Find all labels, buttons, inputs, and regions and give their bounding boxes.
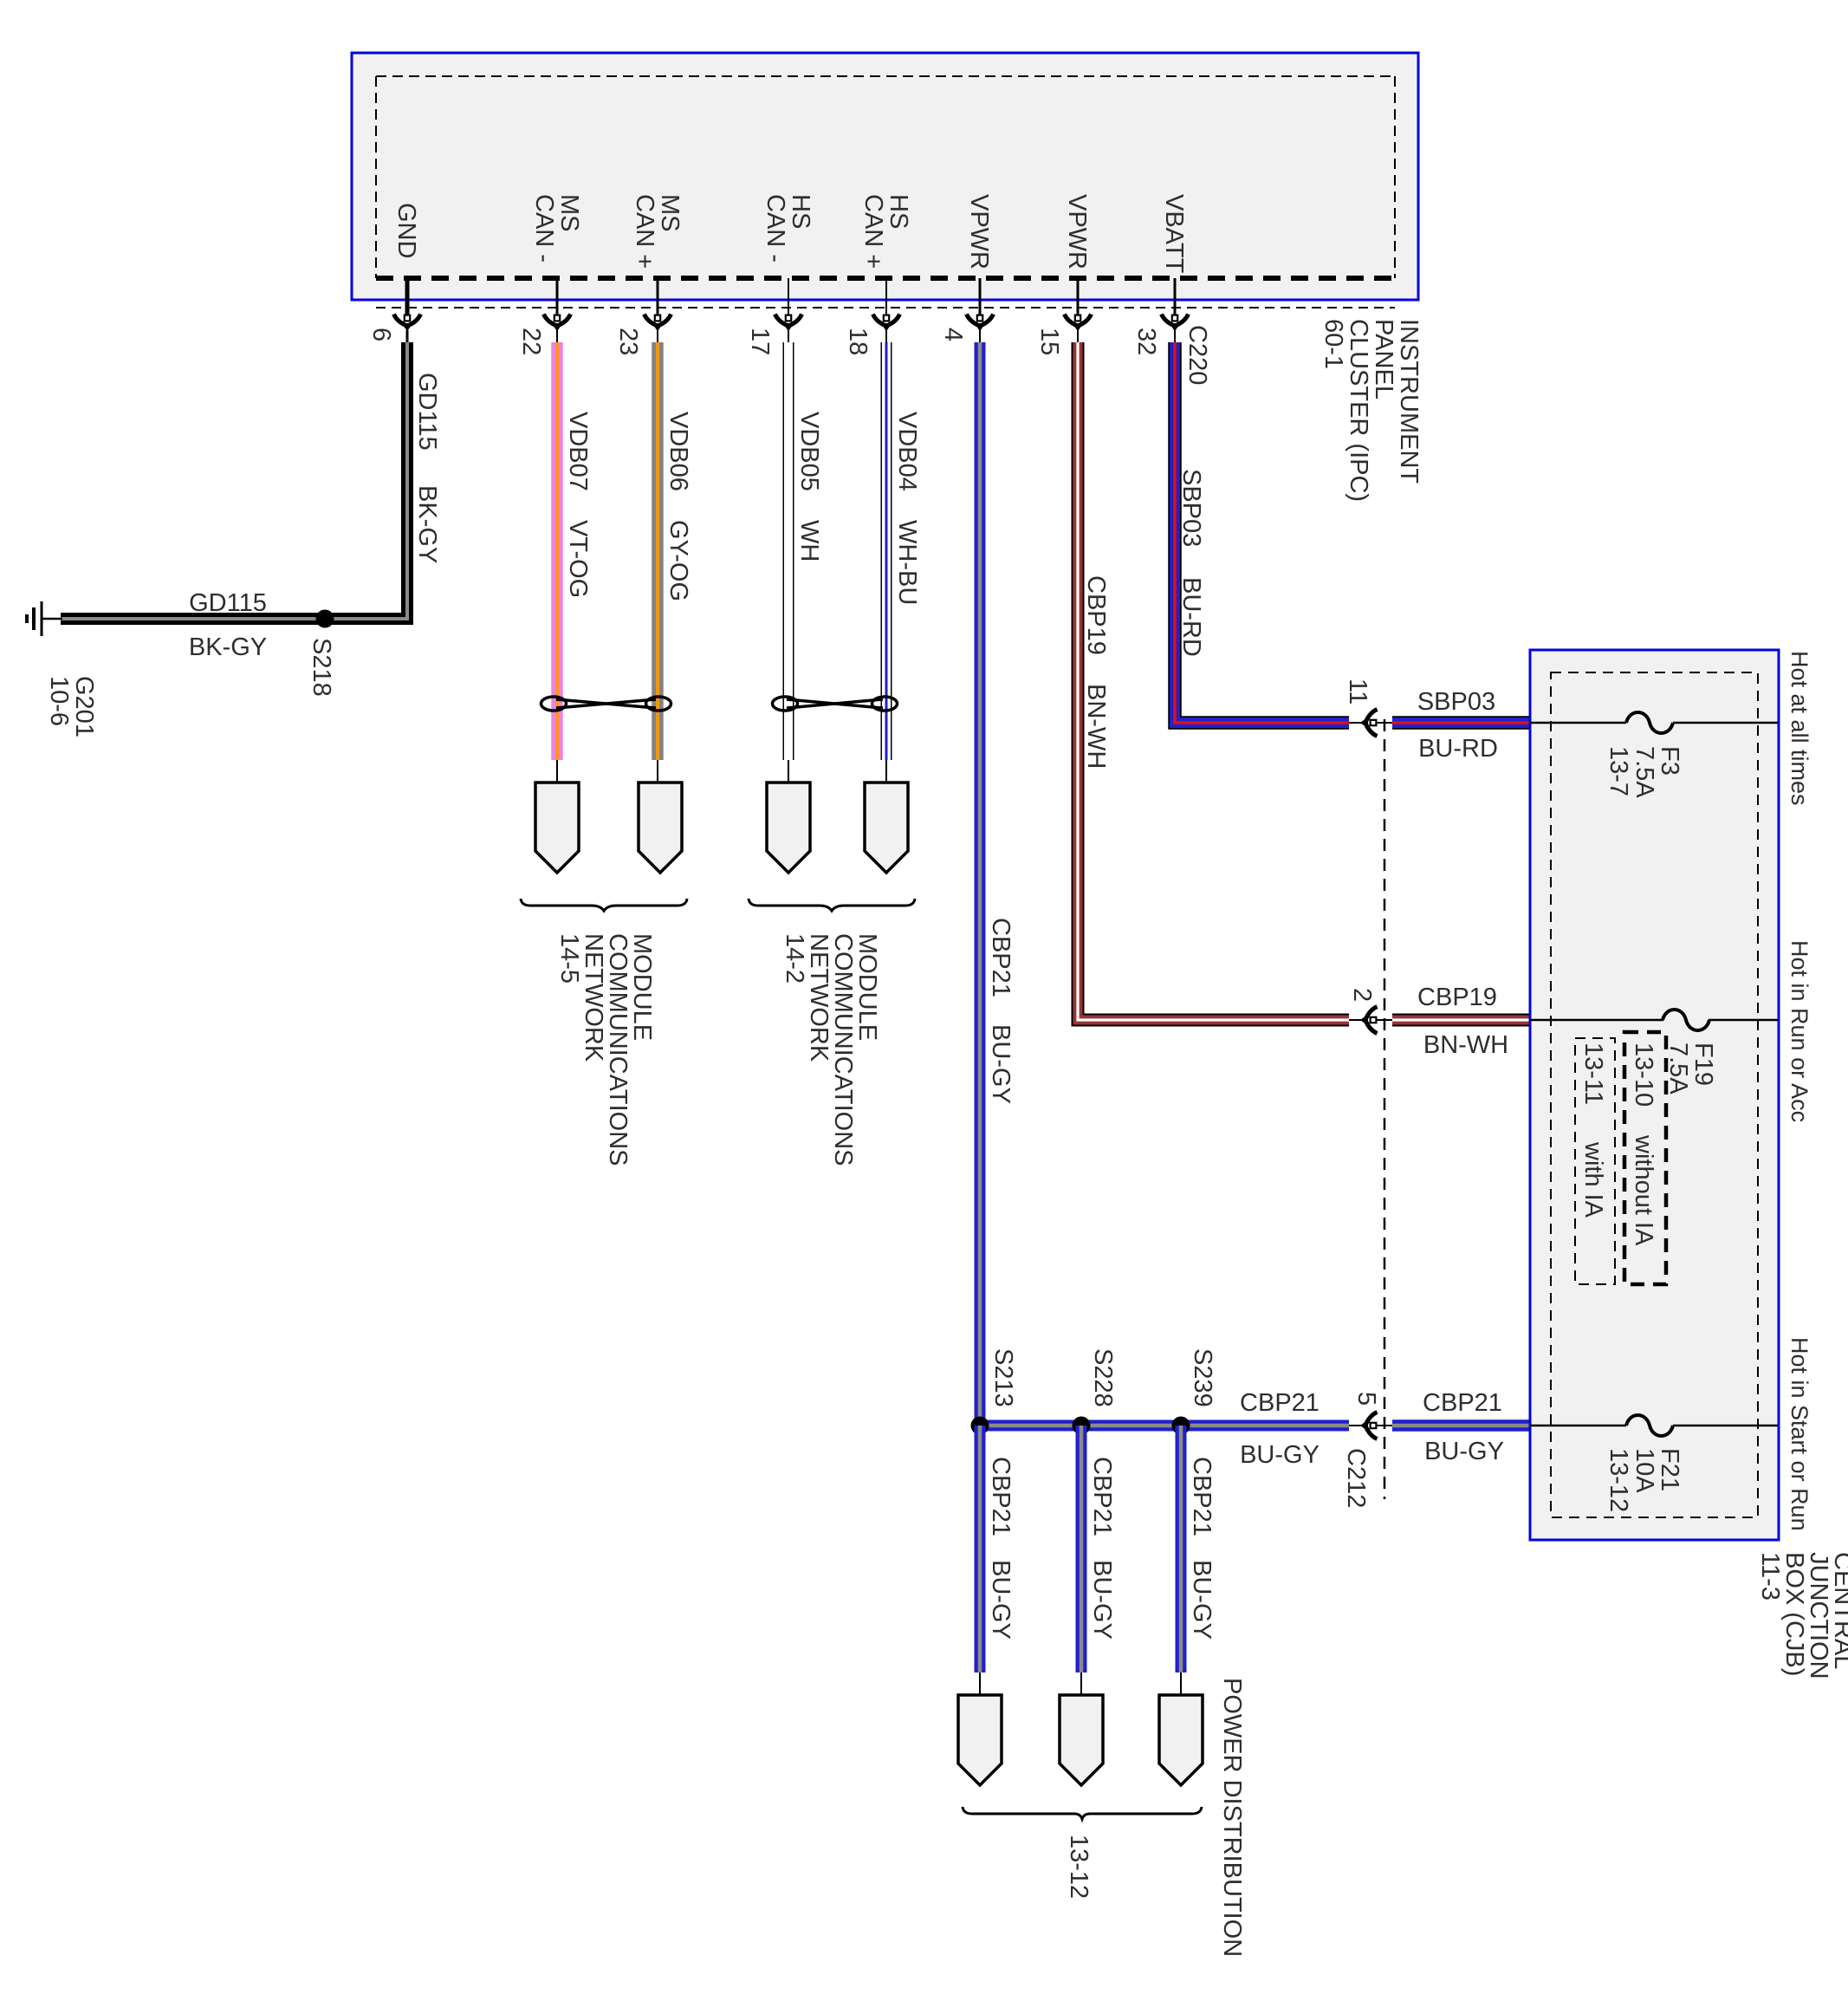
central junction box (CJB) [1530, 650, 1779, 1540]
connector fork pin 4 [967, 315, 994, 330]
label VDB06 GY-OG [665, 412, 692, 601]
svg-text:BU-GY: BU-GY [987, 1024, 1015, 1104]
pin number 4 [939, 328, 967, 341]
svg-text:2: 2 [1348, 988, 1376, 1002]
svg-text:HS: HS [885, 194, 912, 229]
label 13-12 (power distribution) [1065, 1835, 1093, 1899]
svg-text:BN-WH: BN-WH [1423, 1031, 1508, 1059]
connector fork pin 5 [1349, 1425, 1365, 1426]
svg-text:HS: HS [787, 194, 814, 229]
twisted pair symbol MS CAN [541, 697, 671, 711]
svg-text:60-1: 60-1 [1320, 319, 1347, 369]
svg-text:CBP21: CBP21 [1088, 1457, 1116, 1536]
svg-text:VDB04: VDB04 [893, 412, 921, 491]
off-page connector (pin 23 branch) [639, 783, 682, 873]
pin label VPWR (4) [965, 194, 993, 270]
svg-text:G201: G201 [70, 676, 98, 737]
label 13-11 with IA [1579, 1042, 1607, 1218]
dashed option box 13-11 with IA [1575, 1038, 1615, 1284]
label GD115 BK-GY (vertical wire) [413, 373, 441, 563]
wire SBP03 BU-RD (pin 32 VBATT) [1175, 342, 1349, 723]
off-page connector (S239 drop) [1159, 1695, 1203, 1785]
label VDB04 WH-BU [893, 412, 921, 605]
connector fork pin 18 [873, 315, 900, 330]
label S228 [1089, 1348, 1117, 1407]
wire CBP21 drop from S239 [1176, 1426, 1187, 1672]
label CBP21 BU-GY (S239 drop) [1188, 1457, 1216, 1640]
connector fork pin 2 [1349, 1019, 1365, 1021]
connector fork pin 15 [1065, 315, 1092, 330]
svg-text:7.5A: 7.5A [1664, 1042, 1692, 1094]
label CENTRAL JUNCTION BOX (CJB) 11-3 [1756, 1552, 1848, 1679]
svg-text:BU-GY: BU-GY [1240, 1441, 1320, 1469]
instrument panel cluster (IPC) box [352, 53, 1418, 300]
pin label VPWR (15) [1063, 194, 1091, 270]
label Hot in Start or Run [1786, 1337, 1812, 1531]
svg-text:C212: C212 [1342, 1448, 1370, 1508]
svg-text:BK-GY: BK-GY [189, 633, 267, 661]
svg-text:CBP19: CBP19 [1082, 575, 1110, 655]
fuse F19 [1663, 1010, 1709, 1030]
connector fork pin 32 [1162, 315, 1189, 330]
pin stubs [407, 278, 1175, 342]
svg-text:MS: MS [656, 194, 684, 232]
off-page connector (S213 drop) [958, 1695, 1002, 1785]
wire CBP21 drop from S228 [1076, 1426, 1087, 1672]
label F3 7.5A 13-7 [1605, 746, 1683, 798]
svg-text:BU-RD: BU-RD [1177, 577, 1205, 657]
svg-text:13-12: 13-12 [1605, 1448, 1632, 1512]
svg-text:with IA: with IA [1579, 1141, 1607, 1218]
svg-text:GD115: GD115 [189, 589, 267, 617]
pin label GND [392, 203, 420, 258]
leads to off-page connectors [557, 760, 886, 783]
wire CBP21 drop from S213 [975, 1426, 986, 1672]
label Hot in Run or Acc [1786, 940, 1812, 1122]
svg-text:SBP03: SBP03 [1177, 469, 1205, 547]
svg-text:VPWR: VPWR [1063, 194, 1091, 270]
svg-text:GND: GND [392, 203, 420, 258]
svg-text:Hot at all times: Hot at all times [1786, 651, 1812, 806]
svg-text:WH-BU: WH-BU [893, 520, 921, 605]
fuse F3 [1626, 712, 1673, 733]
pin number 15 [1035, 328, 1063, 355]
svg-text:13-11: 13-11 [1579, 1042, 1607, 1105]
twisted pair symbol HS CAN [773, 697, 898, 711]
connector fork pin 6 [394, 315, 421, 330]
svg-text:F3: F3 [1656, 746, 1683, 776]
connector fork pin 11 [1349, 722, 1365, 724]
off-page connector (pin 17 branch) [767, 783, 810, 873]
svg-text:13-7: 13-7 [1605, 746, 1632, 796]
label S218 [308, 638, 335, 697]
svg-text:CLUSTER (IPC): CLUSTER (IPC) [1345, 319, 1372, 502]
pin label HS CAN - [762, 194, 814, 263]
svg-text:C220: C220 [1183, 325, 1211, 385]
svg-text:GD115: GD115 [413, 373, 441, 451]
svg-text:F19: F19 [1689, 1042, 1717, 1086]
svg-text:5: 5 [1352, 1392, 1380, 1406]
wire CBP19 BN-WH (pin 15 VPWR) [1078, 342, 1349, 1020]
svg-text:BU-GY: BU-GY [1188, 1560, 1216, 1640]
splice S228 [1073, 1417, 1091, 1435]
connector fork pin 17 [775, 315, 802, 330]
svg-text:GY-OG: GY-OG [665, 520, 692, 601]
svg-text:WH: WH [795, 520, 823, 562]
svg-text:BN-WH: BN-WH [1082, 684, 1110, 769]
fuse F3 feed line [1530, 722, 1626, 724]
svg-text:BU-RD: BU-RD [1418, 735, 1498, 763]
svg-text:CAN -: CAN - [530, 194, 558, 263]
wire CBP21 into CJB [1392, 1419, 1530, 1432]
connector C212 dashed line [1384, 719, 1386, 1499]
ground label G201 10-6 [45, 676, 98, 737]
brace MS CAN group [521, 899, 687, 911]
svg-text:VDB06: VDB06 [665, 412, 692, 491]
fuse F21 feed line [1530, 1425, 1626, 1427]
pin number 22 [517, 328, 545, 355]
svg-text:14-5: 14-5 [555, 933, 583, 984]
svg-text:14-2: 14-2 [781, 933, 808, 984]
svg-text:BU-GY: BU-GY [1424, 1438, 1504, 1465]
label F21 10A 13-12 [1605, 1448, 1683, 1512]
label CBP21 BU-GY (pin 4 wire) [987, 918, 1015, 1104]
svg-text:CBP21: CBP21 [987, 918, 1015, 997]
svg-text:13-10: 13-10 [1630, 1042, 1657, 1107]
ground G201 symbol [27, 601, 62, 636]
svg-text:CAN +: CAN + [859, 194, 887, 269]
fuse F21 [1626, 1415, 1673, 1436]
svg-text:17: 17 [746, 328, 774, 355]
pin number 6 [367, 328, 395, 341]
connector fork pin 22 [544, 315, 571, 330]
splice S239 [1172, 1417, 1190, 1435]
svg-text:CBP21: CBP21 [1188, 1457, 1216, 1536]
brace power distribution group [963, 1807, 1202, 1819]
label F19 7.5A [1664, 1042, 1717, 1094]
off-page connector (pin 18 branch) [865, 783, 908, 873]
splice S213 [971, 1417, 989, 1435]
label CBP21 BU-GY (S213 drop) [987, 1457, 1015, 1640]
connector C220 label [1183, 325, 1211, 385]
svg-text:BU-GY: BU-GY [987, 1560, 1015, 1640]
svg-text:CAN -: CAN - [762, 194, 789, 263]
svg-text:Hot in Start or Run: Hot in Start or Run [1786, 1337, 1812, 1531]
svg-text:S213: S213 [989, 1348, 1017, 1407]
svg-text:VPWR: VPWR [965, 194, 993, 270]
svg-text:VT-OG: VT-OG [564, 520, 592, 598]
brace HS CAN group [749, 899, 915, 911]
label POWER DISTRIBUTION [1218, 1678, 1246, 1957]
pin number 11 [1344, 679, 1371, 705]
label S239 [1189, 1348, 1216, 1407]
dashed option box 13-10 without IA [1624, 1032, 1666, 1284]
wire VDB05 WH (pin 17) [783, 342, 794, 760]
svg-text:32: 32 [1132, 328, 1160, 355]
svg-text:10A: 10A [1631, 1448, 1658, 1493]
svg-text:VBATT: VBATT [1160, 194, 1188, 274]
wire GD115 BK-GY (pin 6 to ground) [61, 342, 407, 619]
IPC inner dashed connector boundary [376, 76, 1395, 278]
svg-text:6: 6 [367, 328, 395, 341]
pin number 2 [1348, 988, 1376, 1002]
svg-text:VDB07: VDB07 [564, 412, 592, 491]
svg-text:POWER DISTRIBUTION: POWER DISTRIBUTION [1218, 1678, 1246, 1957]
svg-text:CAN +: CAN + [631, 194, 658, 269]
svg-text:S239: S239 [1189, 1348, 1216, 1407]
pin number 5 [1352, 1392, 1380, 1406]
label Hot at all times [1786, 651, 1812, 806]
svg-text:CBP21: CBP21 [1240, 1389, 1320, 1417]
svg-text:BK-GY: BK-GY [413, 485, 441, 563]
svg-text:18: 18 [844, 328, 872, 355]
label VDB05 WH [795, 412, 823, 562]
splice S218 [316, 610, 334, 628]
svg-text:INSTRUMENT: INSTRUMENT [1395, 319, 1423, 484]
off-page connector (pin 22 branch) [535, 783, 579, 873]
svg-text:MS: MS [555, 194, 583, 232]
pin label MS CAN + [631, 194, 684, 269]
svg-text:13-12: 13-12 [1065, 1835, 1093, 1899]
pin label HS CAN + [859, 194, 912, 269]
svg-text:F21: F21 [1656, 1448, 1683, 1491]
wire CBP21 BU-GY (pin 4 VPWR) [980, 342, 1349, 1426]
svg-text:BU-GY: BU-GY [1088, 1560, 1116, 1640]
wire CBP19 into CJB [1392, 1014, 1530, 1027]
label CBP21 BU-GY (S228 drop) [1088, 1457, 1116, 1640]
svg-text:CBP21: CBP21 [987, 1457, 1015, 1536]
pin number 18 [844, 328, 872, 355]
svg-text:CBP21: CBP21 [1423, 1389, 1502, 1417]
label SBP03 BU-RD (pin 32 wire) [1177, 469, 1205, 657]
svg-text:11: 11 [1344, 679, 1371, 705]
label MODULE COMMUNICATIONS NETWORK 14-5 [555, 933, 656, 1166]
wire VDB04 WH-BU (pin 18) [881, 342, 892, 760]
pin number 23 [614, 328, 642, 355]
connector C220 dashed line [376, 307, 1395, 309]
svg-text:Hot in Run or Acc: Hot in Run or Acc [1786, 940, 1812, 1122]
svg-text:SBP03: SBP03 [1417, 688, 1495, 716]
svg-text:PANEL: PANEL [1370, 319, 1397, 399]
wire SBP03 into CJB [1392, 716, 1530, 730]
label CBP19 BN-WH (pin 15 wire) [1082, 575, 1110, 769]
connector fork pin 23 [645, 315, 671, 330]
pin number 17 [746, 328, 774, 355]
svg-text:without IA: without IA [1630, 1134, 1657, 1246]
svg-text:22: 22 [517, 328, 545, 355]
label VDB07 VT-OG [564, 412, 592, 598]
fuse F19 feed line [1530, 1019, 1663, 1022]
pin number 32 [1132, 328, 1160, 355]
CJB inner dashed boundary [1551, 672, 1758, 1517]
pin label MS CAN - [530, 194, 583, 263]
wire VDB06 GY-OG (pin 23) [652, 342, 664, 760]
svg-text:7.5A: 7.5A [1631, 746, 1658, 798]
wire VDB07 VT-OG (pin 22) [551, 342, 563, 760]
label MODULE COMMUNICATIONS NETWORK 14-2 [781, 933, 881, 1166]
label S213 [989, 1348, 1017, 1407]
svg-text:4: 4 [939, 328, 967, 341]
svg-text:11-3: 11-3 [1756, 1552, 1784, 1601]
svg-text:S228: S228 [1089, 1348, 1117, 1407]
label C212 [1342, 1448, 1370, 1508]
IPC title label [1320, 319, 1423, 502]
leads to bottom off-page connectors [980, 1672, 1181, 1696]
svg-text:CBP19: CBP19 [1417, 984, 1497, 1011]
label 13-10 without IA [1630, 1042, 1657, 1246]
svg-text:S218: S218 [308, 638, 335, 697]
pin label VBATT [1160, 194, 1188, 274]
svg-text:10-6: 10-6 [45, 676, 73, 726]
off-page connector (S228 drop) [1060, 1695, 1103, 1785]
svg-text:15: 15 [1035, 328, 1063, 355]
svg-text:23: 23 [614, 328, 642, 355]
svg-text:VDB05: VDB05 [795, 412, 823, 491]
